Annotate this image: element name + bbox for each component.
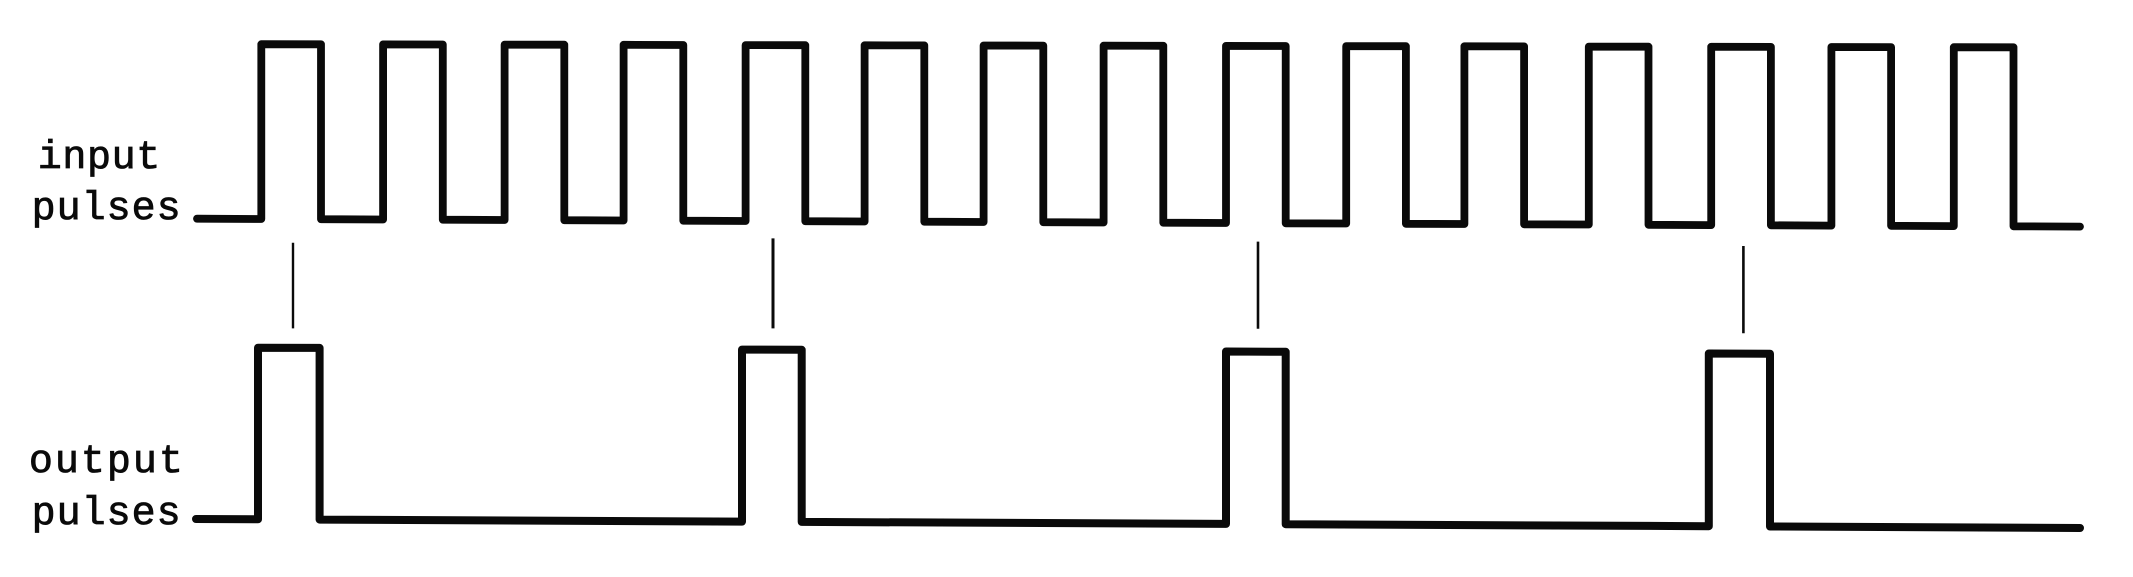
svg-text:pulses: pulses <box>32 187 182 232</box>
wire: output pulse waveform <box>196 348 2080 528</box>
wire: connector line 2 <box>772 238 775 328</box>
wire: connector line 4 <box>1742 246 1745 333</box>
svg-text:output: output <box>29 440 185 485</box>
svg-text:pulses: pulses <box>32 492 182 537</box>
svg-text:input: input <box>38 136 161 181</box>
wire: input pulse train waveform <box>197 44 2080 226</box>
wire: connector line 3 <box>1257 242 1260 329</box>
wire: connector line 1 <box>292 243 294 329</box>
